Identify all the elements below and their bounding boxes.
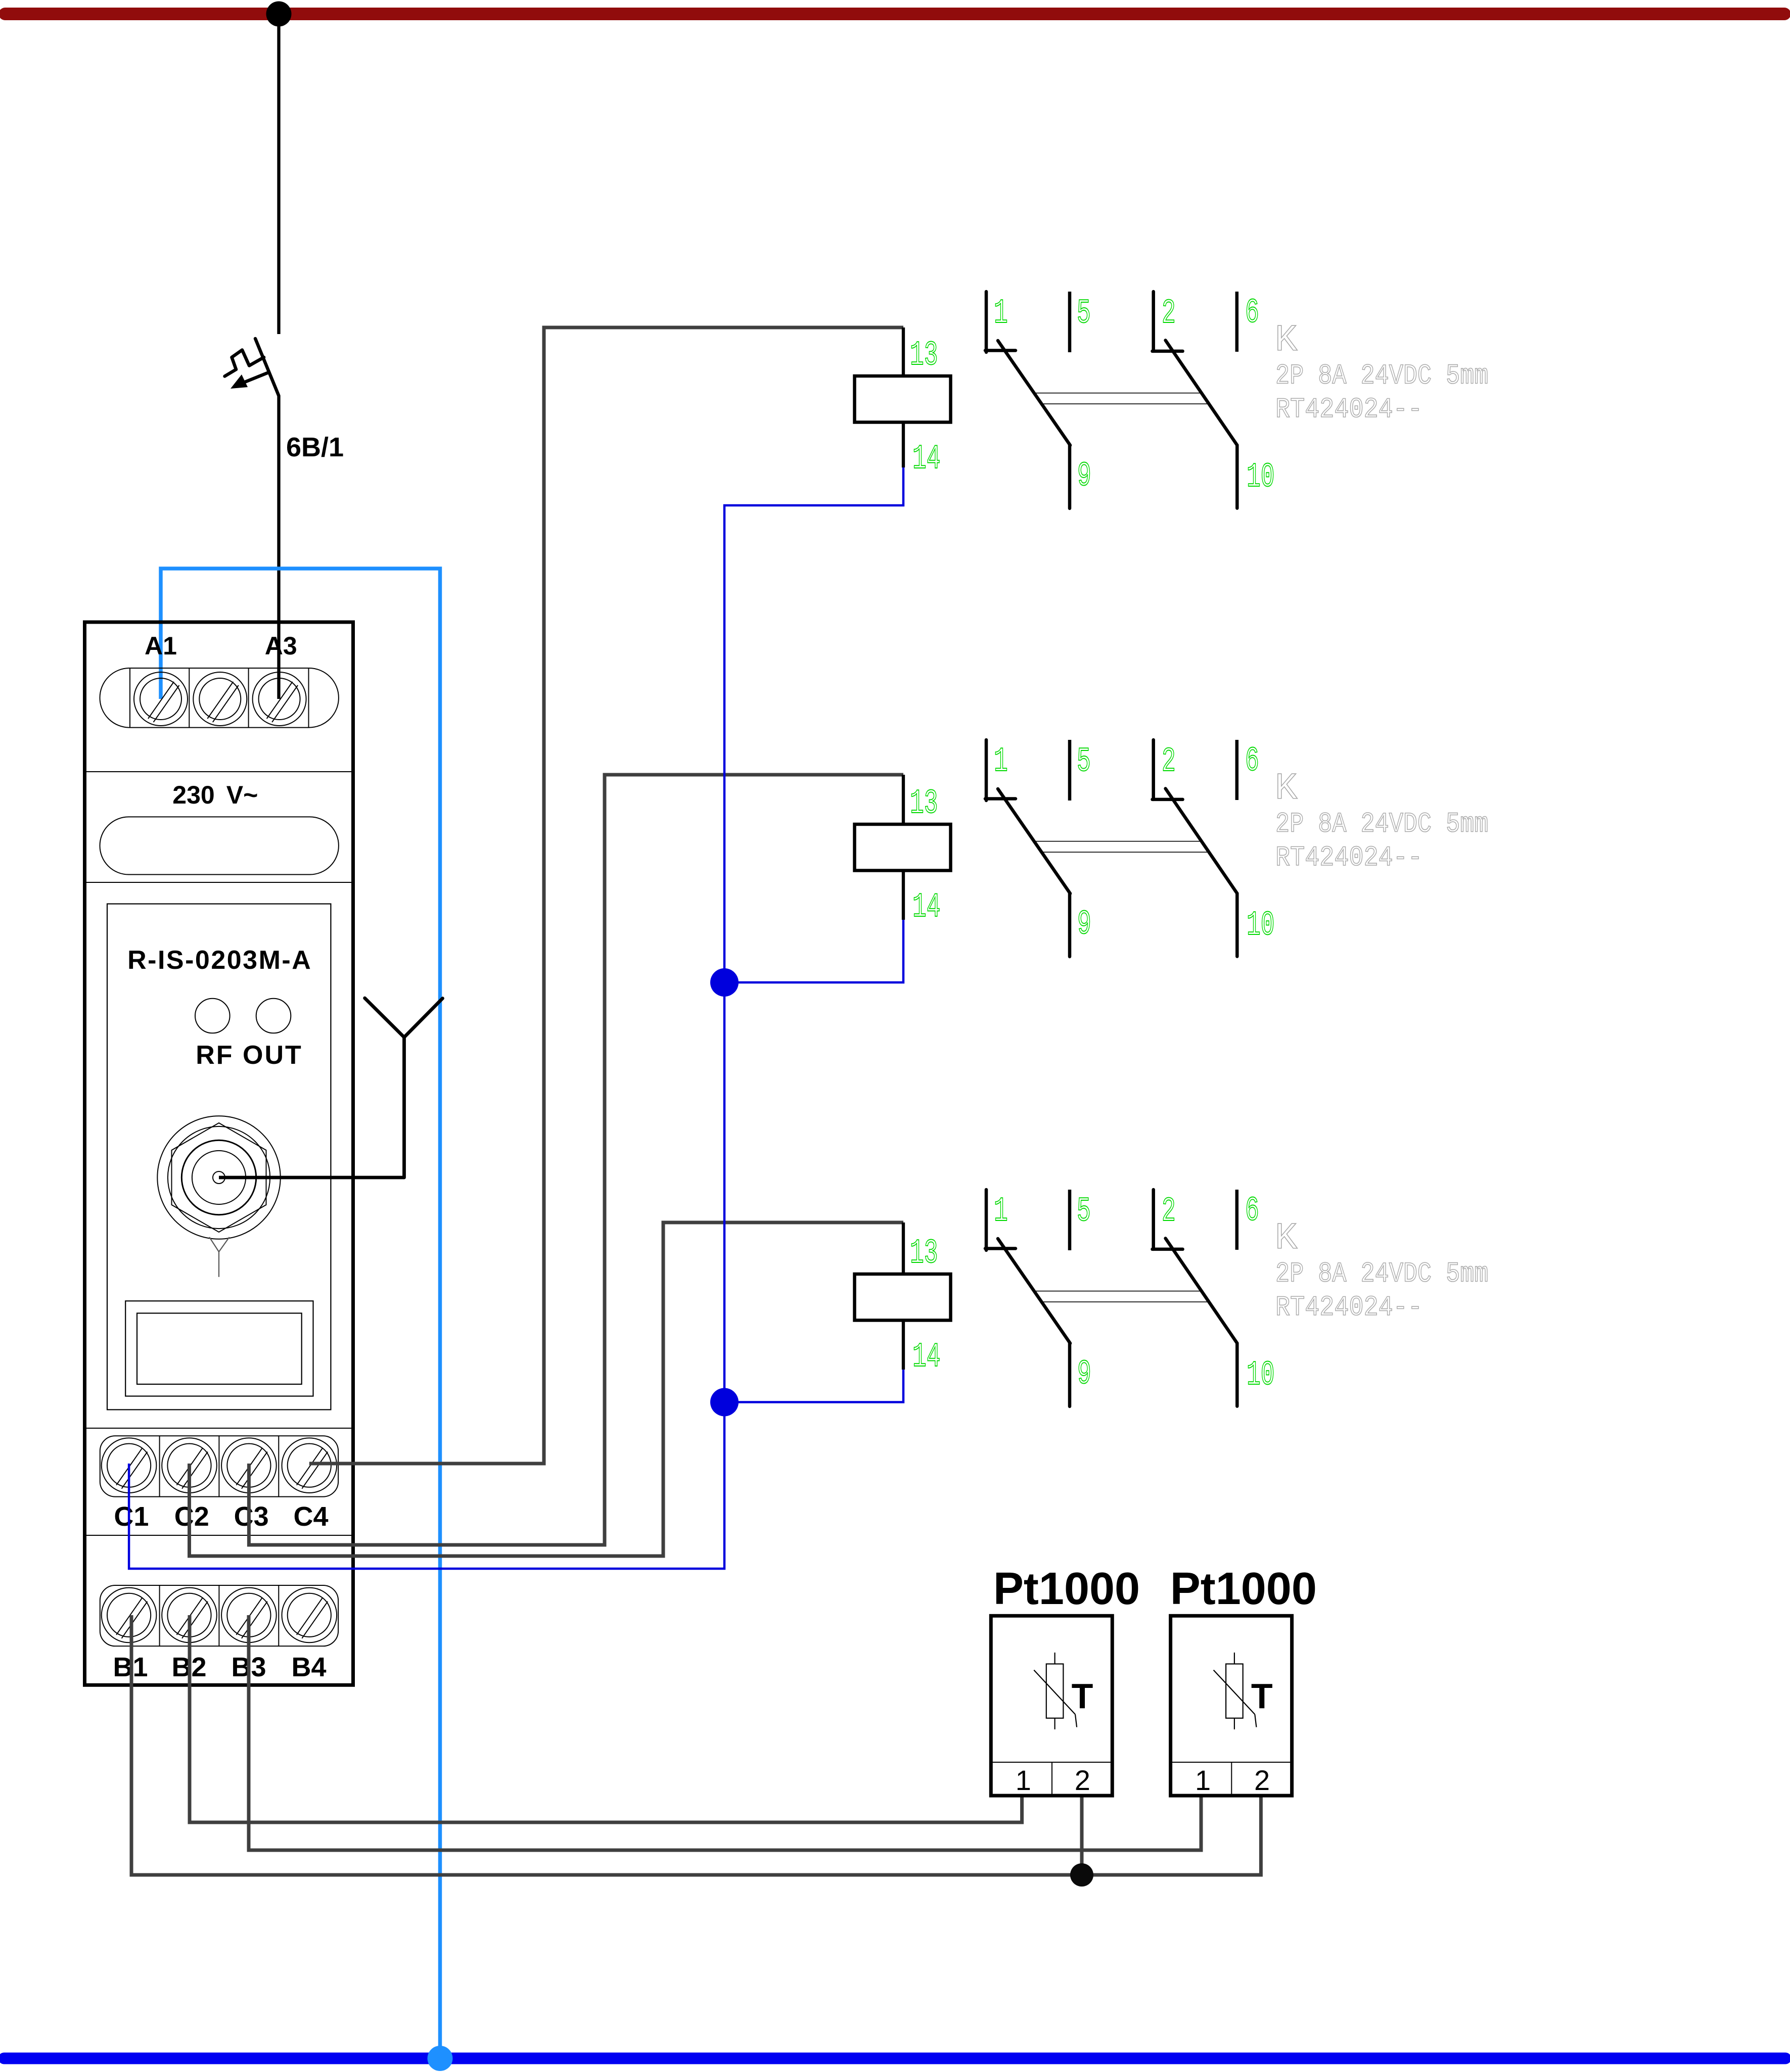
terminal block row A (3 screws) [100,668,339,728]
svg-text:V~: V~ [226,781,258,809]
screw terminal C2 [162,1438,217,1493]
relay K2 stub terminal 6 [1235,740,1239,800]
relay K1 contact pole 1 (NO, terminals 1-9) [985,292,1070,508]
svg-text:C4: C4 [293,1501,328,1532]
device label window [100,817,339,874]
svg-text:2: 2 [1162,1193,1176,1231]
relay K1 stub terminal 5 [1068,292,1072,352]
svg-text:RT424024--: RT424024-- [1275,841,1422,874]
svg-text:2: 2 [1162,295,1176,333]
wire: breaker F1 to terminal A3 [277,395,280,699]
svg-text:13: 13 [910,337,938,375]
device front panel frame [107,904,331,1410]
svg-text:13: 13 [910,1235,938,1273]
svg-text:10: 10 [1247,1356,1274,1395]
relay K3 stub terminal 6 [1235,1190,1239,1250]
thermistor symbol [1214,1653,1257,1729]
relay K3 stub terminal 5 [1068,1190,1072,1250]
relay K1 coil pin 14 [902,422,905,468]
screw terminal C3 [221,1438,277,1493]
wire: C2 to relay coil K3 [190,1222,904,1556]
screw terminal B1 [102,1588,157,1643]
svg-text:T: T [1072,1676,1093,1716]
svg-text:10: 10 [1247,907,1274,945]
screw terminal A3 [253,672,306,726]
node: blue junction dot 1 [710,968,739,997]
svg-text:10: 10 [1247,458,1274,497]
node: junction dot on L rail [266,2,292,27]
svg-text:9: 9 [1077,906,1091,944]
power rail L (top, dark red) [5,8,1784,20]
svg-text:1: 1 [994,295,1008,333]
svg-text:C1: C1 [114,1501,149,1532]
wire: L rail down to breaker F1 [277,14,280,335]
relay K1 contact pole 2 (NO, terminals 2-10) [1153,292,1237,508]
antenna symbol W1 [365,998,443,1178]
svg-text:2: 2 [1162,743,1176,781]
svg-text:A3: A3 [265,632,297,660]
relay K1 coil [855,376,951,422]
svg-text:13: 13 [910,785,938,823]
relay K2 contact pole 1 (NO, terminals 1-9) [985,740,1070,957]
thermistor symbol [1034,1653,1077,1729]
svg-text:9: 9 [1077,457,1091,496]
wire: C4 to relay coil K1 [309,327,903,1464]
relay K3 contact pole 2 (NO, terminals 2-10) [1153,1190,1237,1406]
svg-text:RF OUT: RF OUT [196,1041,303,1070]
device separator line 4 [86,1535,351,1536]
LED indicator OUT [256,999,291,1033]
relay K3 contact pole 1 (NO, terminals 1-9) [985,1190,1070,1406]
svg-text:5: 5 [1077,1193,1091,1231]
screw terminal A1 [134,672,188,726]
relay K2 mechanical link [1034,841,1202,842]
svg-text:6: 6 [1245,1192,1259,1231]
svg-text:2: 2 [1254,1764,1270,1796]
wire: relay K1 coil A2(14) to C1 (blue) [129,467,903,1569]
svg-text:R-IS-0203M-A: R-IS-0203M-A [127,946,312,975]
circuit breaker F1 6B/1 [225,339,279,395]
screw terminal B4 [282,1588,337,1643]
svg-text:K: K [1275,768,1298,810]
relay K1 mechanical link [1034,393,1202,394]
svg-text:14: 14 [912,440,940,479]
svg-text:1: 1 [1195,1764,1211,1796]
LED indicator RF [195,999,230,1033]
small antenna glyph on panel [209,1237,229,1277]
wire: B2 to Pt1000 #1 pin 1 [190,1615,1022,1822]
relay K3 coil [855,1274,951,1321]
wire: Pt1000 #1 pin 2 branch [1080,1796,1084,1875]
svg-text:6: 6 [1245,294,1259,333]
node: junction dot sensors common [1070,1863,1093,1887]
svg-text:1: 1 [994,743,1008,781]
wire: B3 to Pt1000 #2 pin 1 [249,1615,1201,1850]
wire: relay K2 coil to blue bus [724,920,903,982]
svg-text:Pt1000: Pt1000 [1170,1564,1317,1614]
wire: relay K3 coil to blue bus [724,1370,903,1402]
relay K3 mechanical link [1034,1291,1202,1292]
relay K3 coil pin 13 [902,1222,905,1274]
display window outer [125,1301,313,1396]
node: blue junction dot 2 [710,1388,739,1417]
relay K2 coil pin 14 [902,871,905,920]
relay K2 coil [855,824,951,871]
relay K2 coil pin 13 [902,775,905,824]
svg-text:14: 14 [912,888,940,927]
relay K2 contact pole 2 (NO, terminals 2-10) [1153,740,1237,957]
wire: B1 to Pt1000 #2 pin 2 [131,1615,1261,1875]
svg-text:2P 8A 24VDC 5mm: 2P 8A 24VDC 5mm [1275,809,1488,840]
svg-text:230: 230 [172,781,214,809]
svg-text:9: 9 [1077,1355,1091,1394]
neutral rail N (bottom, blue) [4,2053,1785,2064]
svg-text:K: K [1275,1217,1298,1260]
svg-text:2: 2 [1075,1764,1090,1796]
wire: RF connector to antenna [219,1176,404,1180]
svg-text:A1: A1 [145,632,177,660]
screw terminal A2 (unused) [193,672,247,726]
svg-text:Pt1000: Pt1000 [993,1564,1140,1614]
terminal block row C (4 screws) [100,1436,338,1496]
device separator line 3 [86,1428,351,1429]
svg-text:5: 5 [1077,743,1091,781]
svg-text:K: K [1275,319,1298,362]
svg-text:6: 6 [1245,742,1259,781]
svg-text:2P 8A 24VDC 5mm: 2P 8A 24VDC 5mm [1275,1258,1488,1290]
device separator line 1 [86,771,351,772]
svg-text:2P 8A 24VDC 5mm: 2P 8A 24VDC 5mm [1275,360,1488,392]
svg-text:T: T [1251,1676,1273,1716]
svg-text:1: 1 [994,1193,1008,1231]
screw terminal C1 [102,1438,157,1493]
display window inner [137,1313,302,1385]
relay K2 stub terminal 5 [1068,740,1072,800]
device separator line 2 [86,882,351,883]
screw terminal C4 [282,1438,337,1493]
relay K3 coil pin 14 [902,1321,905,1370]
terminal block row B (4 screws) [100,1585,338,1646]
svg-text:B4: B4 [291,1652,326,1682]
svg-text:5: 5 [1077,295,1091,333]
svg-text:C2: C2 [174,1501,209,1532]
node: junction dot on N rail [428,2046,453,2071]
svg-text:14: 14 [912,1338,940,1377]
relay K1 stub terminal 6 [1235,292,1239,352]
svg-text:1: 1 [1016,1764,1031,1796]
svg-text:C3: C3 [234,1501,269,1532]
screw terminal B3 [221,1588,277,1643]
svg-text:RT424024--: RT424024-- [1275,1291,1422,1324]
relay K1 coil pin 13 [902,327,905,376]
screw terminal B2 [162,1588,217,1643]
wire: terminal A1 to N rail (light blue) [161,569,440,2058]
svg-text:RT424024--: RT424024-- [1275,393,1422,426]
RF antenna connector (SMA, concentric) [157,1116,280,1239]
svg-text:6B/1: 6B/1 [286,432,344,462]
receiver device U1 R-IS-0203M-A: outer body [85,622,353,1685]
wire: C3 to relay coil K2 [249,775,903,1545]
